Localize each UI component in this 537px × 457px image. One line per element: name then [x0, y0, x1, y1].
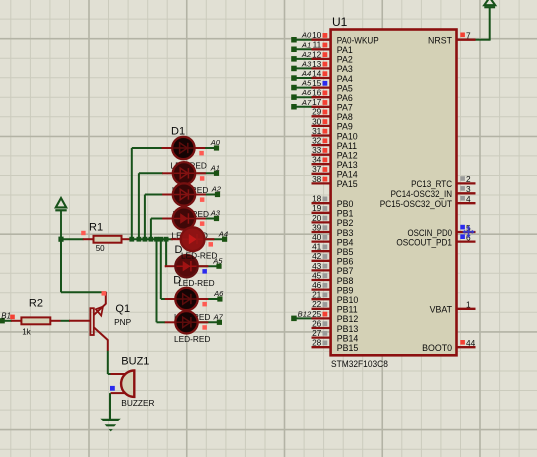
svg-text:29: 29 — [312, 107, 322, 117]
svg-text:16: 16 — [312, 88, 322, 98]
wire NRST to power terminal — [476, 39, 490, 41]
svg-text:37: 37 — [312, 164, 322, 174]
terminal A2 — [211, 185, 222, 197]
terminal net A2 — [291, 50, 312, 62]
pin 19 PB1 — [312, 203, 354, 218]
pin state indicator — [202, 302, 207, 307]
svg-text:PA7: PA7 — [337, 103, 353, 113]
svg-text:42: 42 — [312, 251, 322, 261]
junction — [149, 237, 154, 242]
pin state indicator — [199, 151, 204, 156]
svg-text:41: 41 — [312, 242, 322, 252]
svg-text:44: 44 — [466, 338, 476, 348]
svg-text:A1: A1 — [301, 40, 311, 49]
svg-text:A2: A2 — [211, 185, 222, 194]
svg-text:PA10: PA10 — [337, 131, 358, 141]
junction — [143, 237, 148, 242]
svg-text:45: 45 — [312, 270, 322, 280]
terminal A7 — [213, 313, 224, 325]
pin 26 PB13 — [312, 318, 359, 333]
LED D5 (lit) — [171, 227, 215, 251]
pin 43 PB7 — [312, 261, 354, 276]
terminal net A6 — [291, 88, 312, 100]
svg-text:PB2: PB2 — [337, 218, 354, 228]
pin state indicator — [200, 176, 205, 181]
node junction at R1 left / emitter branch — [58, 237, 63, 242]
pin 10 PA0-WKUP — [312, 30, 379, 45]
LED D8 — [165, 311, 209, 333]
svg-text:PB15: PB15 — [337, 343, 359, 353]
svg-text:38: 38 — [312, 174, 322, 184]
pin 45 PB8 — [312, 270, 354, 285]
wire LED A6 cathode to terminal — [199, 298, 220, 300]
wire R2 to Q1 base — [61, 320, 71, 322]
pin 38 PA15 — [312, 174, 358, 189]
pin state indicator BUZ1 — [110, 386, 115, 391]
wire bus branch to D8 anode — [156, 239, 158, 322]
terminal A6 — [213, 289, 224, 301]
svg-text:32: 32 — [312, 136, 322, 146]
pin 5 OSCIN_PD0 — [408, 223, 476, 238]
svg-text:PB13: PB13 — [337, 324, 359, 334]
svg-text:27: 27 — [312, 328, 322, 338]
svg-text:39: 39 — [312, 222, 322, 232]
junction — [154, 237, 159, 242]
svg-text:PB6: PB6 — [337, 257, 354, 267]
terminal A1 — [210, 164, 220, 176]
svg-text:25: 25 — [312, 309, 322, 319]
terminal net A5 — [291, 79, 312, 91]
terminal net A7 — [291, 98, 312, 110]
junction — [129, 237, 134, 242]
svg-text:PB5: PB5 — [337, 247, 354, 257]
resistor R2 1k — [11, 298, 60, 337]
pin state indicator — [209, 242, 214, 247]
mouse move cursor at pin 5 — [463, 226, 475, 238]
pin state indicator — [200, 197, 205, 202]
svg-text:7: 7 — [466, 31, 471, 41]
LED D3 — [162, 183, 206, 205]
svg-text:LED-RED: LED-RED — [181, 251, 217, 261]
svg-text:Q1: Q1 — [115, 303, 130, 315]
pin 16 PA6 — [312, 88, 353, 103]
op IC U1 STM32F103C8 body — [331, 30, 457, 356]
wire LED A0 cathode to terminal — [196, 147, 217, 149]
svg-text:A7: A7 — [301, 98, 312, 107]
LED D7 — [165, 288, 209, 310]
svg-text:40: 40 — [312, 232, 322, 242]
wire R1 to LED bus — [130, 238, 173, 240]
pin 28 PB15 — [312, 338, 359, 353]
svg-text:1k: 1k — [22, 328, 31, 337]
terminal A0 — [210, 138, 221, 150]
svg-text:PNP: PNP — [114, 317, 132, 327]
pin 29 PA8 — [312, 107, 353, 122]
svg-text:12: 12 — [312, 49, 322, 59]
svg-text:11: 11 — [313, 40, 322, 50]
svg-text:3: 3 — [466, 184, 471, 194]
svg-text:A0: A0 — [301, 31, 312, 40]
svg-text:PA15: PA15 — [337, 179, 358, 189]
pin state indicator Q1 emitter — [102, 291, 107, 296]
pin 34 PA13 — [312, 155, 358, 170]
svg-text:21: 21 — [312, 290, 322, 300]
svg-text:BOOT0: BOOT0 — [422, 343, 452, 353]
LED D2 — [162, 162, 206, 184]
svg-text:A6: A6 — [301, 88, 312, 97]
junction — [137, 237, 142, 242]
svg-text:PA2: PA2 — [337, 55, 353, 65]
svg-text:A3: A3 — [210, 209, 221, 218]
pin 11 PA1 — [312, 40, 353, 55]
svg-text:13: 13 — [312, 59, 322, 69]
svg-text:43: 43 — [312, 261, 322, 271]
pin 18 PB0 — [312, 194, 354, 209]
wire bus branch to D3 anode — [144, 195, 146, 240]
svg-text:PB14: PB14 — [337, 333, 359, 343]
wire LED A4 cathode to terminal — [205, 238, 225, 240]
LED D4 — [162, 207, 206, 229]
svg-text:17: 17 — [312, 97, 322, 107]
svg-text:10: 10 — [312, 30, 322, 40]
pin 2 PC13_RTC — [411, 174, 475, 189]
svg-text:BUZZER: BUZZER — [121, 398, 154, 408]
svg-text:PB4: PB4 — [337, 237, 354, 247]
wire LED A3 cathode to terminal — [197, 218, 217, 220]
pin state indicator — [200, 221, 205, 226]
power terminal VCC (left, above R1) — [55, 198, 66, 239]
pin 14 PA4 — [312, 68, 353, 83]
wire LED A1 cathode to terminal — [197, 172, 217, 174]
terminal net B12 — [291, 309, 312, 321]
terminal B1 (net B12) — [0, 312, 15, 324]
svg-text:A5: A5 — [301, 79, 312, 88]
svg-text:30: 30 — [312, 116, 322, 126]
resistor R1 50 ohm — [81, 222, 130, 253]
svg-text:B12: B12 — [298, 309, 312, 318]
svg-text:OSCOUT_PD1: OSCOUT_PD1 — [396, 237, 452, 247]
wire B1 to R2 — [4, 320, 12, 322]
wire emitter horizontal — [61, 291, 106, 293]
wire bus branch to D6 anode — [165, 239, 167, 266]
junction — [158, 237, 163, 242]
pin 27 PB14 — [312, 328, 359, 343]
svg-text:A3: A3 — [301, 59, 312, 68]
svg-text:PA8: PA8 — [337, 112, 353, 122]
svg-text:PA1: PA1 — [337, 45, 353, 55]
svg-text:A4: A4 — [301, 69, 311, 78]
LED D6 — [165, 255, 209, 277]
svg-text:BUZ1: BUZ1 — [121, 356, 149, 368]
pin state indicator — [202, 269, 207, 274]
wire bus branch to D7 anode — [160, 239, 162, 299]
pin 7 NRST — [428, 31, 475, 46]
svg-text:PA5: PA5 — [337, 83, 353, 93]
pin 20 PB2 — [312, 213, 354, 228]
svg-text:15: 15 — [312, 78, 322, 88]
pin 22 PB11 — [312, 299, 358, 314]
wire LED A2 cathode to terminal — [197, 194, 218, 196]
svg-text:A2: A2 — [301, 50, 312, 59]
svg-text:PC14-OSC32_IN: PC14-OSC32_IN — [391, 189, 452, 199]
svg-text:LED-RED: LED-RED — [178, 278, 214, 288]
svg-text:A1: A1 — [210, 164, 220, 173]
svg-text:22: 22 — [312, 299, 322, 309]
svg-text:PA4: PA4 — [337, 74, 353, 84]
svg-text:20: 20 — [312, 213, 322, 223]
ground symbol — [100, 419, 121, 432]
terminal net A1 — [291, 40, 311, 52]
power terminal on NRST — [484, 0, 495, 7]
svg-text:LED-RED: LED-RED — [174, 334, 210, 344]
svg-text:A7: A7 — [213, 313, 224, 322]
svg-text:OSCIN_PD0: OSCIN_PD0 — [408, 228, 453, 238]
svg-text:R2: R2 — [29, 298, 43, 310]
wire junction to R1 left — [61, 238, 84, 240]
pin 25 PB12 — [312, 309, 359, 324]
wire LED A5 cathode to terminal — [199, 265, 219, 267]
pin 41 PB5 — [312, 242, 354, 257]
svg-text:50: 50 — [96, 244, 105, 253]
svg-text:PA3: PA3 — [337, 64, 353, 74]
pin 44 BOOT0 — [422, 338, 475, 353]
wire Q1 collector to BUZ1 — [107, 351, 109, 374]
svg-text:A6: A6 — [213, 289, 224, 298]
junction — [164, 237, 169, 242]
svg-text:1: 1 — [466, 300, 471, 310]
svg-text:PB10: PB10 — [337, 295, 359, 305]
terminal net A3 — [291, 59, 312, 71]
svg-text:19: 19 — [312, 203, 322, 213]
wire bus branch to D4 anode — [150, 219, 152, 240]
pin 42 PB6 — [312, 251, 354, 266]
wire bus branch to D2 anode — [138, 173, 140, 239]
LED D1 — [162, 125, 206, 159]
pin 40 PB4 — [312, 232, 354, 247]
pin 32 PA11 — [312, 136, 358, 151]
svg-text:PB11: PB11 — [337, 305, 358, 315]
svg-text:33: 33 — [312, 145, 322, 155]
svg-text:28: 28 — [312, 338, 322, 348]
svg-text:R1: R1 — [89, 222, 103, 234]
wire junction down to emitter level — [60, 239, 62, 292]
svg-text:PB8: PB8 — [337, 276, 354, 286]
svg-text:14: 14 — [312, 68, 322, 78]
svg-text:A0: A0 — [210, 138, 221, 147]
svg-text:PB0: PB0 — [337, 199, 354, 209]
svg-text:B1: B1 — [1, 312, 11, 321]
pin state indicator — [202, 325, 207, 330]
pin 4 PC15-OSC32_OUT — [380, 194, 476, 209]
pin 30 PA9 — [312, 116, 353, 131]
wire bus branch to D1 anode — [131, 148, 133, 239]
svg-text:PB12: PB12 — [337, 314, 359, 324]
svg-text:2: 2 — [466, 174, 471, 184]
pin 21 PB10 — [312, 290, 359, 305]
pin 33 PA12 — [312, 145, 358, 160]
pin 31 PA10 — [312, 126, 358, 141]
svg-text:46: 46 — [312, 280, 322, 290]
svg-text:PC13_RTC: PC13_RTC — [411, 179, 452, 189]
pin 3 PC14-OSC32_IN — [391, 184, 476, 199]
svg-text:PB7: PB7 — [337, 266, 354, 276]
terminal A4 — [218, 229, 228, 241]
pin 46 PB9 — [312, 280, 354, 295]
terminal A3 — [210, 209, 221, 221]
pin 15 PA5 — [312, 78, 353, 93]
pin 1 VBAT — [430, 300, 476, 315]
pin 12 PA2 — [312, 49, 353, 64]
svg-text:U1: U1 — [332, 15, 348, 29]
svg-text:PA0-WKUP: PA0-WKUP — [337, 36, 379, 46]
pin 17 PA7 — [312, 97, 353, 112]
svg-text:PA14: PA14 — [337, 170, 358, 180]
transistor Q1 PNP — [69, 292, 132, 351]
svg-text:STM32F103C8: STM32F103C8 — [331, 359, 388, 370]
svg-text:PA9: PA9 — [337, 122, 353, 132]
wire LED A7 cathode to terminal — [199, 321, 219, 323]
buzzer BUZ1 — [111, 356, 155, 409]
pin 6 OSCOUT_PD1 — [396, 232, 475, 247]
svg-text:34: 34 — [312, 155, 322, 165]
terminal net A4 — [291, 69, 311, 81]
svg-text:PA11: PA11 — [337, 141, 357, 151]
svg-text:D1: D1 — [171, 125, 185, 137]
wire BUZ1 to ground — [109, 393, 111, 419]
terminal net A0 — [291, 31, 312, 43]
svg-text:PA6: PA6 — [337, 93, 353, 103]
svg-text:4: 4 — [466, 194, 471, 204]
svg-text:PB3: PB3 — [337, 228, 354, 238]
pin 37 PA14 — [312, 164, 358, 179]
svg-text:PC15-OSC32_OUT: PC15-OSC32_OUT — [380, 199, 453, 209]
svg-text:NRST: NRST — [428, 36, 453, 46]
terminal A5 — [212, 256, 223, 268]
svg-text:PA13: PA13 — [337, 160, 358, 170]
pin 39 PB3 — [312, 222, 354, 237]
svg-text:PA12: PA12 — [337, 151, 358, 161]
svg-text:26: 26 — [312, 318, 322, 328]
svg-text:PB9: PB9 — [337, 285, 354, 295]
pin 13 PA3 — [312, 59, 353, 74]
svg-text:A4: A4 — [218, 229, 228, 238]
svg-text:31: 31 — [312, 126, 322, 136]
svg-text:PB1: PB1 — [337, 209, 354, 219]
svg-text:18: 18 — [312, 194, 322, 204]
svg-text:VBAT: VBAT — [430, 305, 453, 315]
